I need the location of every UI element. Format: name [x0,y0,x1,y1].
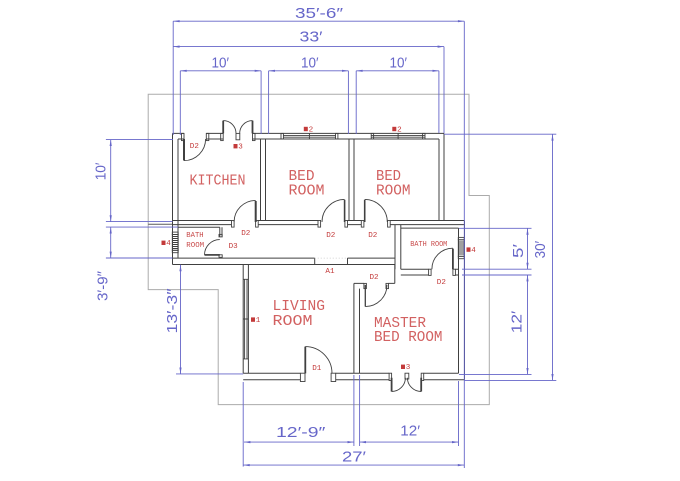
opening A1 : dashed lintel [315,257,348,259]
left exterior wall [173,133,179,264]
door D2 kitchen bottom : leaf [255,201,257,222]
bed2 right wall [439,133,444,220]
tag w4 bath1 [162,241,166,245]
svg-text:LIVING: LIVING [273,299,326,315]
dim line 33' [173,46,444,48]
door D2 bed2 : arc [365,199,388,222]
svg-text:10′: 10′ [390,56,408,72]
dim line 10' kitchen [180,70,261,72]
svg-text:BATH ROOM: BATH ROOM [410,241,447,249]
svg-text:BED ROOM: BED ROOM [374,330,443,346]
svg-text:D1: D1 [312,365,322,373]
svg-text:5′: 5′ [511,244,527,258]
ext line right 12' top [462,274,532,276]
tag w3 kitchen top [234,144,238,148]
bed1/bed2 divider [349,139,354,221]
dim line 12' bottom [360,441,459,443]
corridor bottom wall [173,257,396,259]
opening A1 : jamb ticks [315,258,348,264]
ext line left 10' bottom [106,221,173,223]
ext line kitchen dim right [260,71,262,134]
svg-text:1: 1 [256,317,261,325]
RED ROOM LABELS [190,169,443,346]
door D2 bath2 : jambs [429,269,432,275]
ext line 12'-9" right [353,375,355,446]
dim line 12'-9" bottom [244,441,354,443]
ext line 35'-6" right (full height) [463,21,465,468]
door D1 living : jambs [300,373,305,381]
svg-text:10′: 10′ [94,162,110,180]
svg-text:27′: 27′ [342,450,366,466]
svg-text:ROOM: ROOM [289,184,325,200]
window w4 bath1 : hatch [172,237,178,249]
window w2 bed2 [371,133,424,139]
ext line bed1 dim right [347,71,349,134]
door D2 kitchen top-left : leaf [183,139,185,161]
double door w3 arcs [223,121,252,134]
svg-text:33′: 33′ [300,30,323,46]
svg-text:D2: D2 [241,230,251,238]
svg-text:ROOM: ROOM [376,184,411,200]
svg-text:12′: 12′ [400,424,420,440]
door D2 kitchen bottom : jambs [232,221,235,228]
svg-text:KITCHEN: KITCHEN [190,174,246,190]
svg-text:D2: D2 [190,143,200,151]
ext line 12' bottom left [359,375,361,446]
svg-text:10′: 10′ [301,56,319,72]
door D1 living : arc [305,347,332,374]
svg-text:D2: D2 [370,274,380,282]
ext line bed2 dim left [355,71,357,134]
ext line 30' top [444,133,556,135]
door D2 bed2 : jambs [361,221,364,228]
svg-text:12′-9″: 12′-9″ [276,425,325,441]
top exterior wall [173,132,445,134]
tag w3 master [401,365,405,369]
ext line top-left vertical [172,21,174,135]
roof outline gray [148,94,489,404]
door D3 bath1 : jambs [219,234,222,237]
svg-text:3′-9″: 3′-9″ [96,271,112,301]
window w2 bed1 [283,133,336,139]
bath2 left wall [395,225,401,270]
ext line left 3'-9" bottom [106,257,173,259]
double door w3 master : center post [405,373,409,379]
ext line bed1 dim left [268,71,270,134]
door D2 master : leaf [364,285,366,307]
dim line 13'-3" left [180,265,182,374]
svg-text:3: 3 [406,364,411,372]
bath1 right wall [220,227,222,258]
ext line 5' top [459,227,532,229]
svg-text:12′: 12′ [509,310,525,333]
svg-text:2: 2 [309,126,314,134]
door D3 bath1 : arc [205,240,220,255]
BLUE DIM TEXTS [94,6,549,466]
ext line 5' bottom [462,268,532,270]
svg-text:35′-6″: 35′-6″ [295,6,343,22]
svg-text:A1: A1 [325,268,335,276]
ext line left 3'-9" top [106,226,178,228]
ext line 30' bottom [465,379,557,381]
svg-text:D2: D2 [437,279,447,287]
dim line 35'-6" [173,20,464,22]
tag w2 bed1 [304,127,308,131]
living/master wall [354,283,360,373]
ext line 12' bottom right [458,381,460,446]
dimension arrowheads [110,20,554,466]
WALLS [173,133,465,379]
ext line bed2 dim right [438,71,440,133]
kitchen row bottom wall [173,220,465,222]
door D2 kitchen top-left : jambs [182,133,185,140]
BLUE DIMENSIONS [106,21,556,468]
tag w2 bed2 [392,127,396,131]
ext line right 12' bottom [459,373,532,375]
vestibule wall / corridor step [394,265,396,284]
window w4 bath2 : frame [458,240,464,256]
svg-text:10′: 10′ [212,56,230,72]
door D2 bed1 : arc [322,199,345,222]
window w4 bath1 : frame [172,235,178,251]
svg-text:D3: D3 [229,243,239,251]
dim line 12' right [527,275,529,374]
door D1 living : leaf [304,347,306,374]
svg-text:D2: D2 [326,232,336,240]
double door w3 master : leaves [392,378,422,392]
double door w3 master : arcs [392,378,422,392]
kitchen/bed1 divider [261,139,266,221]
svg-text:13′-3″: 13′-3″ [165,289,181,334]
door D2 bed2 : leaf [364,200,366,222]
dim line 10' bed2 [356,70,439,72]
master top wall right portion [401,268,459,270]
dim line 5' right [527,228,529,269]
door D2 kitchen bottom : arc [234,200,256,222]
ext line 13'-3" bottom [176,373,243,375]
tag w4 bath2 [467,247,471,251]
door D3 bath1 : leaf [205,254,220,256]
svg-text:ROOM: ROOM [186,242,204,250]
door D2 bath2 : arc [432,248,453,269]
door D2 bed1 : leaf [344,200,346,222]
living room left wall [243,265,248,374]
bath1 top wall [178,226,220,228]
dim line 27' bottom [243,464,464,466]
bottom exterior wall [243,372,458,374]
master vestibule wall with door [354,282,395,284]
dim line 10' bed1 [269,70,349,72]
ext line left 10' top [106,139,173,141]
dim line 30' right [552,134,554,380]
svg-text:4: 4 [166,240,171,248]
right exterior wall [459,221,465,380]
bath2 top wall [401,227,459,229]
roof divider line left [148,223,173,225]
window w4 bath2 : hatch [458,242,464,254]
double door w3 leaves [223,121,252,134]
double door w3 master : jambs [389,373,392,380]
RED TAG LABELS [162,126,477,373]
door D2 master : jambs [364,283,367,288]
DOORS & OPENINGS [172,121,464,392]
ext line kitchen dim left [179,71,181,135]
ext line 33' right [443,47,445,133]
dim line 3'-9" left [110,227,112,258]
svg-text:D2: D2 [368,232,378,240]
double door w3 kitchen top : center post [236,133,240,139]
svg-text:ROOM: ROOM [273,314,313,330]
tag w1 living [251,317,255,321]
ext line bottom left [242,382,244,467]
svg-text:30′: 30′ [533,241,549,259]
door D2 master : arc [365,285,387,307]
svg-text:3: 3 [238,144,243,152]
double door w3 kitchen top : jambs [221,133,224,140]
svg-text:2: 2 [397,126,402,134]
svg-text:BATH: BATH [186,232,203,240]
dim line 10' left [110,140,112,222]
door D2 kitchen top-left : swing arc [184,139,206,161]
door D2 bath2 : leaf [452,249,454,270]
window w1 living : inner lines [243,279,248,359]
door D2 bed1 : jambs [318,221,321,228]
svg-text:4: 4 [471,247,476,255]
